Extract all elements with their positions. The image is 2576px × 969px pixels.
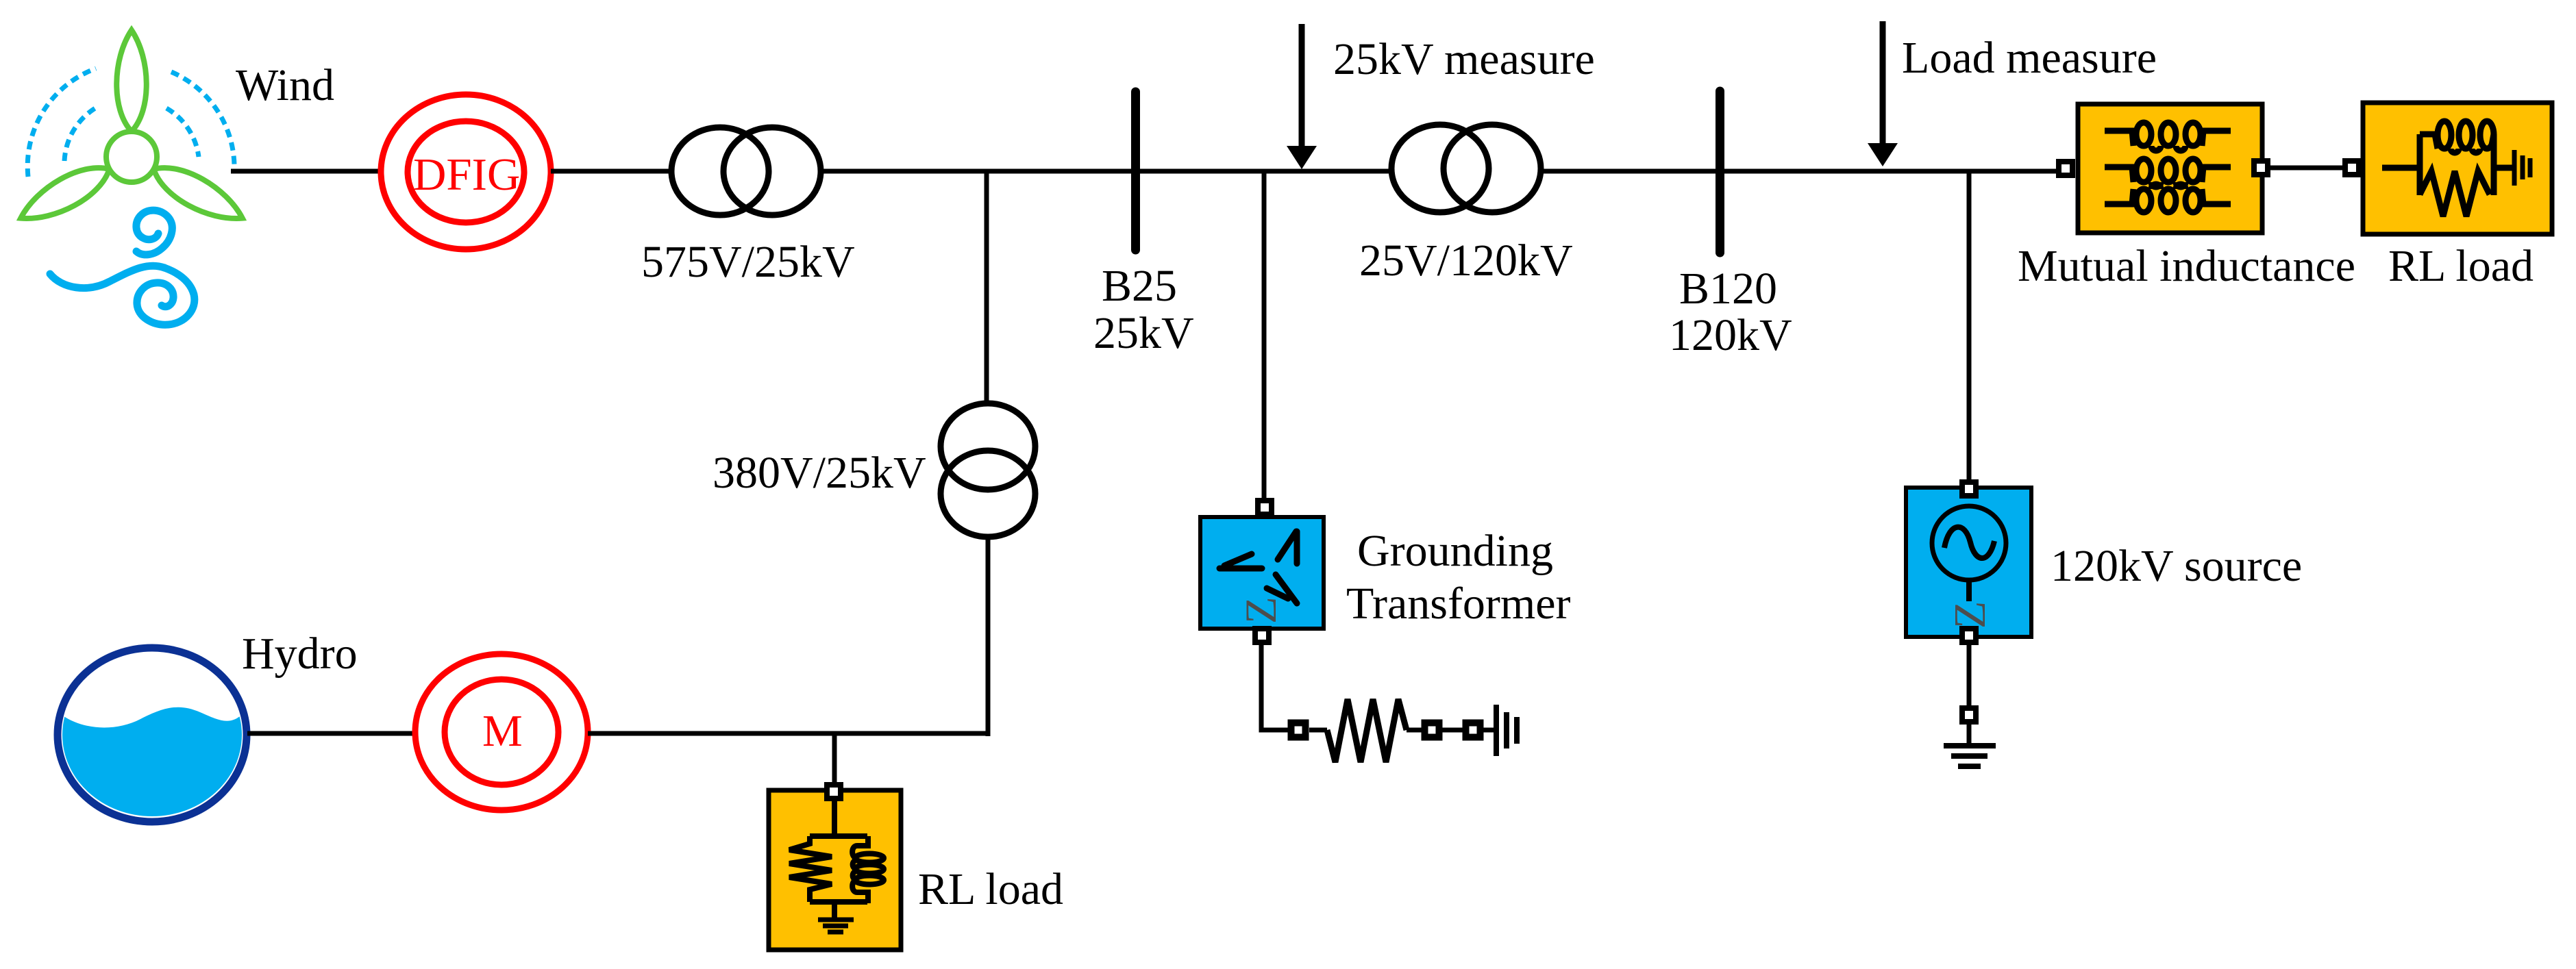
- bus B120: [1716, 91, 1724, 253]
- wind swirl big: [137, 268, 195, 325]
- wire source to ground port: [1967, 644, 1972, 706]
- wire grounding to resistor chain: [1261, 644, 1288, 730]
- dashed arc inner right: [166, 108, 199, 157]
- wire T2 down to bottom line: [986, 537, 991, 736]
- wind swirl small: [136, 210, 172, 255]
- ground stem: [832, 902, 837, 918]
- lead into parallel: [832, 801, 837, 836]
- blade top: [116, 30, 147, 131]
- sine circle: [1932, 506, 2006, 580]
- port RL load bottom: [827, 785, 841, 798]
- svg-text:Load measure: Load measure: [1902, 33, 2157, 83]
- zigzag icon: [1219, 531, 1297, 603]
- transformer T2 380V/25kV: [941, 403, 1035, 537]
- block RL load (bottom): [769, 790, 901, 950]
- svg-text:Hydro: Hydro: [242, 629, 358, 679]
- winding 1: [2105, 123, 2231, 151]
- dashed arc outer left: [27, 68, 96, 177]
- RL parallel right vertical: [2491, 134, 2497, 195]
- blade left: [14, 156, 117, 231]
- block grounding transformer: [1200, 517, 1324, 629]
- svg-text:B120: B120: [1679, 264, 1777, 314]
- svg-text:120kV source: 120kV source: [2051, 541, 2302, 591]
- wire junction down to 120kV source: [1967, 171, 1972, 481]
- RL ground bars: [2514, 150, 2530, 186]
- svg-text:25kV: 25kV: [1093, 308, 1194, 358]
- svg-text:M: M: [482, 706, 523, 756]
- svg-text:Mutual inductance: Mutual inductance: [2018, 241, 2355, 291]
- transformer T3 25V/120kV: [1391, 125, 1541, 212]
- measure arrow 25kV: [1299, 24, 1305, 148]
- svg-text:RL load: RL load: [918, 864, 1063, 914]
- wire mutual to RL load: [2270, 166, 2342, 171]
- svg-text:380V/25kV: 380V/25kV: [713, 448, 926, 498]
- wire junction down to T2: [984, 171, 989, 403]
- svg-text:Z: Z: [1945, 601, 1995, 629]
- wire: [1483, 728, 1495, 733]
- svg-text:Wind: Wind: [236, 60, 334, 110]
- svg-text:Grounding: Grounding: [1357, 526, 1553, 576]
- svg-text:Transformer: Transformer: [1346, 579, 1571, 629]
- port chain 1: [1291, 723, 1306, 738]
- svg-text:120kV: 120kV: [1669, 310, 1792, 360]
- port 120kV source top: [1962, 482, 1976, 496]
- svg-text:DFIG: DFIG: [413, 149, 520, 200]
- port grounding transformer bottom: [1255, 629, 1269, 642]
- machine DFIG: [381, 95, 551, 249]
- dashed arc inner left: [64, 106, 99, 161]
- wire T1 to T3 (main 25kV line): [821, 169, 1391, 174]
- wire hydro to M: [247, 731, 414, 736]
- hydro icon: [55, 648, 250, 829]
- wire stub to RL load bottom: [832, 733, 837, 783]
- port chain 2: [1425, 723, 1439, 738]
- hub: [106, 131, 157, 182]
- resistor R: [1327, 699, 1407, 762]
- RL lead: [2382, 165, 2420, 171]
- resistor (vertical): [789, 836, 832, 902]
- port chain 3: [1466, 723, 1481, 738]
- svg-text:Z: Z: [1237, 596, 1286, 624]
- winding 3 (mirrored): [2105, 184, 2231, 212]
- wire to ground: [1967, 724, 1972, 746]
- water: [55, 707, 250, 829]
- ground 120kV source: [1944, 746, 1996, 766]
- wind turbine icon: [14, 30, 250, 325]
- wire turbine to DFIG: [231, 169, 379, 174]
- wire inside source: [1966, 580, 1972, 601]
- ground (rotated) chain: [1496, 705, 1517, 756]
- parallel bottom bar: [810, 899, 867, 905]
- port grounding transformer top: [1258, 501, 1272, 514]
- parallel top bar: [810, 833, 867, 839]
- block RL load (right): [2363, 103, 2552, 234]
- hydro ring: [58, 648, 247, 822]
- machine M (hydro): [415, 654, 588, 810]
- inductor (vertical): [852, 836, 884, 903]
- winding 2: [2105, 159, 2231, 187]
- port 120kV source bottom: [1962, 629, 1976, 642]
- wire: [1309, 728, 1327, 733]
- transformer T1 575V/25kV: [671, 127, 821, 215]
- bus B25: [1131, 92, 1140, 250]
- port RL load left: [2345, 161, 2359, 175]
- wire M to junction: [588, 731, 990, 736]
- wire T3 to mutual inductance: [1541, 169, 2056, 174]
- wire: [1407, 728, 1422, 733]
- port mutual inductance right: [2254, 161, 2268, 175]
- wire junction down to grounding transformer: [1262, 171, 1267, 501]
- sine wave: [1944, 527, 1994, 558]
- measure arrow Load: [1880, 21, 1886, 145]
- ground bars: [818, 920, 854, 932]
- svg-text:RL load: RL load: [2388, 241, 2534, 291]
- RL right lead to ground: [2494, 165, 2512, 171]
- port mutual inductance left: [2059, 162, 2072, 175]
- RL parallel left vertical: [2417, 134, 2423, 195]
- svg-text:B25: B25: [1102, 261, 1177, 311]
- RL inductor top: [2420, 121, 2494, 153]
- dashed arc outer right: [171, 72, 234, 170]
- port source ground: [1962, 708, 1976, 722]
- block 120kV source: [1906, 488, 2031, 637]
- svg-text:25kV measure: 25kV measure: [1333, 34, 1595, 84]
- wire: [1442, 728, 1463, 733]
- blade right: [147, 156, 250, 231]
- block mutual inductance: [2078, 104, 2262, 233]
- wind s-line: [50, 266, 164, 288]
- svg-text:575V/25kV: 575V/25kV: [641, 237, 855, 287]
- RL resistor bottom: [2420, 171, 2490, 216]
- wire DFIG to T1: [551, 169, 670, 174]
- svg-text:25V/120kV: 25V/120kV: [1359, 236, 1573, 286]
